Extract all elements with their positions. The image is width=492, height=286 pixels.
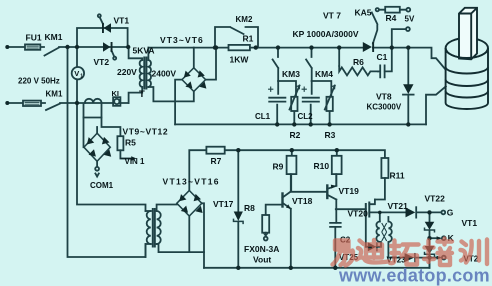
svg-text:VT22: VT22 xyxy=(425,194,446,204)
svg-text:C1: C1 xyxy=(377,52,388,62)
svg-text:KM4: KM4 xyxy=(315,69,333,79)
svg-text:VT1: VT1 xyxy=(114,16,130,26)
svg-text:R11: R11 xyxy=(390,171,405,181)
svg-text:FX0N-3A: FX0N-3A xyxy=(244,244,279,254)
svg-text:COM1: COM1 xyxy=(90,181,114,190)
svg-text:R6: R6 xyxy=(353,57,364,67)
svg-text:R4: R4 xyxy=(386,13,397,23)
svg-text:www.edatop.com: www.edatop.com xyxy=(338,266,490,286)
svg-text:VT19: VT19 xyxy=(339,186,360,196)
svg-text:R7: R7 xyxy=(211,156,222,166)
svg-text:CL2: CL2 xyxy=(298,112,314,121)
svg-text:KM1: KM1 xyxy=(45,32,63,42)
svg-text:V: V xyxy=(74,69,79,78)
svg-text:T: T xyxy=(139,89,145,100)
svg-text:R3: R3 xyxy=(325,130,336,140)
svg-text:R5: R5 xyxy=(125,138,136,148)
svg-text:R8: R8 xyxy=(244,203,255,213)
svg-text:VT3~VT6: VT3~VT6 xyxy=(160,35,204,45)
svg-text:KC3000V: KC3000V xyxy=(367,103,402,112)
svg-text:KM1: KM1 xyxy=(46,90,63,99)
svg-text:VT20: VT20 xyxy=(348,209,369,219)
svg-text:R1: R1 xyxy=(243,34,254,44)
svg-text:R10: R10 xyxy=(314,161,330,171)
svg-text:220V: 220V xyxy=(117,67,137,77)
svg-text:2400V: 2400V xyxy=(152,69,177,79)
svg-text:KA5: KA5 xyxy=(355,8,372,18)
svg-text:KM2: KM2 xyxy=(236,15,253,24)
svg-text:VT18: VT18 xyxy=(292,196,313,206)
svg-text:Vout: Vout xyxy=(253,255,271,265)
svg-text:220 V 50Hz: 220 V 50Hz xyxy=(18,77,60,86)
svg-text:1: 1 xyxy=(80,74,83,80)
svg-text:VT13~VT16: VT13~VT16 xyxy=(163,177,220,187)
svg-text:KM3: KM3 xyxy=(282,69,300,79)
svg-text:FU1: FU1 xyxy=(26,33,42,43)
svg-text:5V: 5V xyxy=(405,15,415,24)
svg-text:KI: KI xyxy=(112,89,120,98)
svg-text:CL1: CL1 xyxy=(255,112,271,121)
svg-text:VT17: VT17 xyxy=(213,199,234,209)
svg-text:R9: R9 xyxy=(273,162,284,172)
svg-text:VT 7: VT 7 xyxy=(323,11,341,21)
svg-text:KP 1000A/3000V: KP 1000A/3000V xyxy=(293,29,359,39)
svg-text:5KVA: 5KVA xyxy=(133,46,155,56)
svg-text:VT1: VT1 xyxy=(462,218,478,228)
svg-text:VT2: VT2 xyxy=(94,57,110,67)
svg-text:VIN 1: VIN 1 xyxy=(125,157,146,166)
svg-text:G: G xyxy=(447,208,454,218)
svg-text:VT8: VT8 xyxy=(376,92,392,102)
svg-text:1KW: 1KW xyxy=(230,55,250,65)
svg-text:R2: R2 xyxy=(290,130,301,140)
svg-text:VT21: VT21 xyxy=(388,201,409,211)
svg-text:VT9~VT12: VT9~VT12 xyxy=(123,127,169,137)
